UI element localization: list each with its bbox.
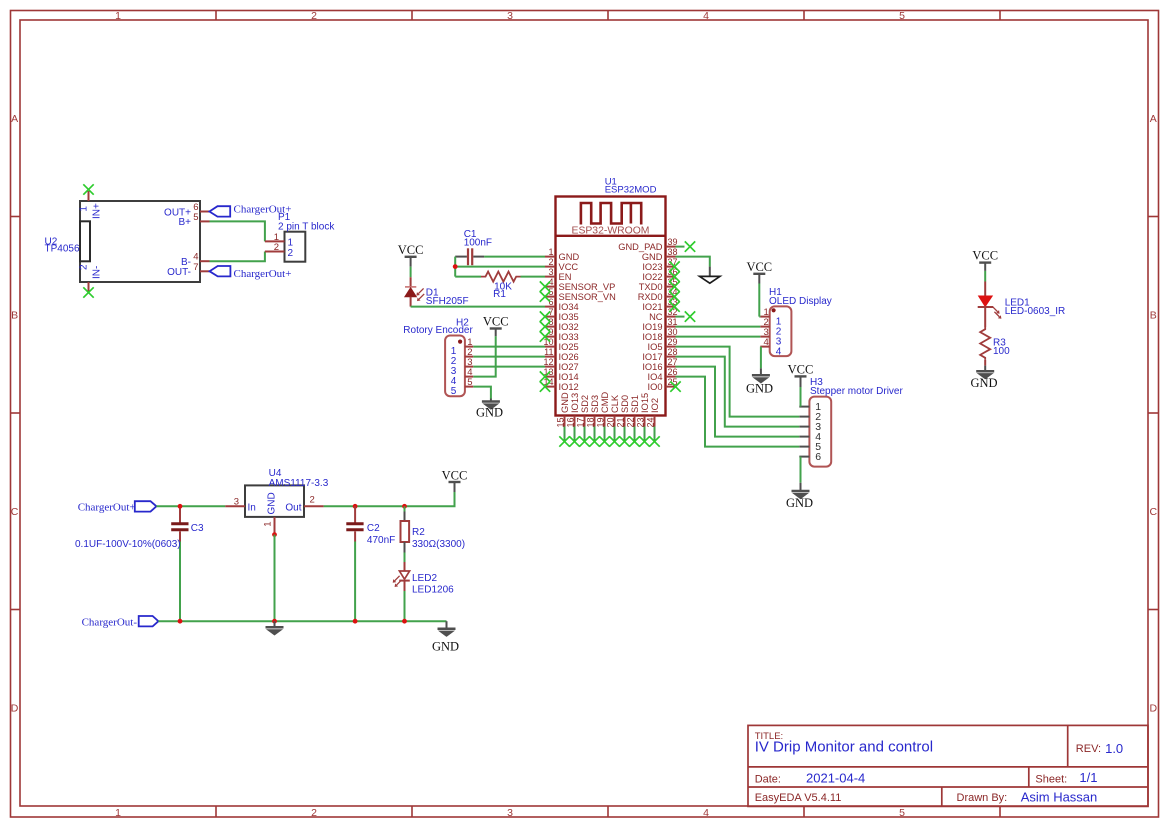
P1 pin 2 — [265, 251, 285, 253]
svg-text:C3: C3 — [191, 523, 204, 534]
U2 pin 4 B- — [200, 260, 210, 262]
svg-text:GND: GND — [267, 492, 278, 514]
D1 light arrows — [418, 288, 423, 293]
wire U1 pin29 IO5 to H3 pin2 — [676, 347, 800, 417]
net flag ChargerOut+ (at U2 OUT+) — [209, 206, 230, 216]
svg-text:IO14: IO14 — [559, 372, 579, 382]
H1 pin 1 — [760, 316, 769, 318]
wire stub bottom pin — [654, 427, 656, 442]
wire U1 pin31 IO19 to H1 pin2 — [676, 326, 761, 328]
U1 pin 6 IO34 — [545, 306, 556, 308]
U2 pin 5 B+ — [200, 220, 210, 222]
svg-text:18: 18 — [586, 418, 596, 428]
wire R1 to U1 pin3 EN — [521, 276, 546, 278]
svg-text:2: 2 — [288, 248, 294, 259]
svg-text:GND_PAD: GND_PAD — [618, 242, 663, 252]
ground symbol (rail end) — [438, 629, 456, 637]
wire ChargerOut+ to U4 In — [156, 505, 225, 507]
svg-text:GND: GND — [786, 496, 813, 510]
connector H3 body — [809, 397, 831, 467]
svg-text:17: 17 — [576, 418, 586, 428]
svg-text:Date:: Date: — [755, 773, 781, 785]
svg-text:SD1: SD1 — [630, 395, 640, 413]
svg-text:SD2: SD2 — [580, 395, 590, 413]
svg-text:1: 1 — [115, 807, 121, 819]
U1 pin 14 IO12 — [545, 386, 556, 388]
IC U4 AMS1117-3.3 body — [245, 485, 304, 517]
svg-text:2: 2 — [274, 242, 279, 253]
junction node R2 top — [402, 504, 407, 509]
junction node at C1/R1 tee — [453, 264, 458, 269]
svg-text:VCC: VCC — [972, 249, 998, 263]
svg-text:22: 22 — [626, 418, 636, 428]
junction node U4 gnd pin — [272, 532, 277, 537]
svg-text:GND: GND — [970, 376, 997, 390]
junction node rail/C2 — [353, 619, 358, 624]
IC U2 TP4056 body — [80, 201, 200, 282]
wire rail end to GND — [446, 621, 448, 629]
U1 pin 5 SENSOR_VN — [545, 296, 556, 298]
svg-text:470nF: 470nF — [367, 535, 395, 546]
svg-text:11: 11 — [544, 347, 553, 357]
svg-text:ESP32-WROOM: ESP32-WROOM — [572, 226, 650, 237]
svg-text:SD0: SD0 — [620, 395, 630, 413]
no-connect X bottom pin — [599, 436, 609, 446]
svg-text:CLK: CLK — [610, 394, 620, 413]
no-connect X on U2 pin2 — [83, 287, 93, 297]
U1 pin 9 IO33 — [545, 336, 556, 338]
U1 pin 25 IO0 — [666, 386, 676, 388]
svg-text:D: D — [1150, 703, 1158, 715]
H2 pin 2 — [465, 356, 473, 358]
svg-text:IN-: IN- — [92, 266, 103, 279]
H3 pin 5 — [799, 446, 809, 448]
svg-text:2 pin T block: 2 pin T block — [278, 221, 335, 232]
U1 pin 24 IO2 — [654, 416, 656, 427]
svg-text:0.1UF-100V-10%(0603): 0.1UF-100V-10%(0603) — [75, 539, 181, 550]
U1 pin 33 IO21 — [666, 306, 676, 308]
wire stub bottom pin — [644, 427, 646, 442]
svg-text:4: 4 — [764, 337, 769, 348]
wire VCC to H1 pin1 — [758, 284, 760, 317]
U2 pin 1 IN+ — [88, 191, 90, 201]
svg-text:6: 6 — [815, 451, 821, 463]
svg-text:AMS1117-3.3: AMS1117-3.3 — [269, 478, 329, 489]
resistor R1 zigzag — [481, 272, 521, 282]
capacitor C3 — [179, 509, 181, 523]
U1 pin 38 GND — [666, 256, 676, 258]
svg-text:IO22: IO22 — [642, 272, 662, 282]
svg-text:IO18: IO18 — [642, 332, 662, 342]
wire U1 pin26 IO4 to H3 pin5 — [676, 377, 800, 447]
svg-text:B+: B+ — [178, 217, 191, 228]
svg-text:IO2: IO2 — [650, 398, 660, 413]
svg-text:IO35: IO35 — [559, 312, 579, 322]
svg-text:GND: GND — [559, 252, 580, 262]
svg-text:SFH205F: SFH205F — [426, 296, 469, 307]
svg-text:C: C — [1150, 506, 1158, 518]
U1 pin 16 IO13 — [574, 416, 576, 427]
U1 pin 19 CMD — [604, 416, 606, 427]
svg-text:Asim Hassan: Asim Hassan — [1021, 790, 1098, 805]
svg-text:OLED Display: OLED Display — [769, 296, 832, 307]
net flag ChargerOut+ (at U2 OUT-) — [210, 266, 231, 276]
U1 pin 31 IO19 — [666, 326, 676, 328]
U1 pin 3 EN — [545, 276, 556, 278]
no-connect X U1 pin39 — [685, 241, 695, 251]
svg-text:24: 24 — [646, 418, 656, 428]
U1 pin 21 SD0 — [624, 416, 626, 427]
svg-text:B: B — [11, 310, 18, 322]
wire to R1 — [455, 276, 481, 278]
svg-text:Stepper motor Driver: Stepper motor Driver — [810, 386, 903, 397]
U1 pin 18 SD3 — [594, 416, 596, 427]
svg-text:LED1206: LED1206 — [412, 585, 454, 596]
U1 antenna meander — [581, 203, 641, 225]
no-connect X marks U1 left pins — [540, 281, 550, 291]
U1 pin 30 IO18 — [666, 336, 676, 338]
no-connect X U1 pin32 — [685, 311, 695, 321]
junction node C3 top — [178, 504, 183, 509]
svg-text:5: 5 — [451, 386, 457, 397]
P1 pin 1 — [265, 240, 285, 242]
wire U1 pin38 GND to earth — [676, 257, 710, 267]
svg-text:REV:: REV: — [1076, 743, 1101, 755]
U1 pin 36 IO22 — [666, 276, 676, 278]
svg-text:IO27: IO27 — [559, 362, 579, 372]
U1 pin 13 IO14 — [545, 376, 556, 378]
U1 pin 8 IO32 — [545, 326, 556, 328]
svg-text:3: 3 — [548, 267, 553, 277]
svg-text:GND: GND — [746, 382, 773, 396]
svg-text:1: 1 — [288, 237, 294, 248]
svg-text:1/1: 1/1 — [1079, 770, 1097, 785]
U4 pin 1 GND — [274, 517, 276, 535]
svg-text:IN+: IN+ — [92, 203, 103, 219]
svg-text:VCC: VCC — [483, 315, 509, 329]
svg-text:IO5: IO5 — [648, 342, 663, 352]
svg-text:5: 5 — [899, 10, 905, 22]
svg-text:A: A — [1150, 113, 1157, 125]
svg-text:TXD0: TXD0 — [639, 282, 663, 292]
svg-text:100: 100 — [993, 346, 1010, 357]
svg-text:1.0: 1.0 — [1105, 741, 1123, 756]
svg-text:GND: GND — [476, 405, 503, 419]
H3 pin 3 — [799, 426, 809, 428]
U1 pin 20 CLK — [614, 416, 616, 427]
ground symbol (H3) — [792, 491, 810, 499]
wire stub bottom pin — [634, 427, 636, 442]
wire U1 pin28 IO17 to H3 pin3 — [676, 357, 800, 427]
U2 pin 7 OUT- — [200, 270, 210, 272]
svg-text:Rotory Encoder: Rotory Encoder — [403, 325, 473, 336]
wire H2 pin4 to VCC — [473, 336, 495, 376]
H2 pin1 indicator dot — [458, 340, 462, 344]
svg-text:Sheet:: Sheet: — [1035, 773, 1067, 785]
title block frame — [748, 725, 1148, 806]
wire U2 B- to P1 pin2 — [210, 252, 265, 262]
U1 pin 37 IO23 — [666, 266, 676, 268]
svg-text:2: 2 — [310, 494, 315, 505]
svg-text:VCC: VCC — [398, 243, 424, 257]
no-connect X U1 pins 37-33 — [669, 261, 679, 271]
svg-text:D: D — [11, 703, 19, 715]
wire H2 pin1 to U1 IO25 — [473, 346, 545, 348]
svg-text:3: 3 — [234, 496, 239, 507]
connector P1 body — [285, 232, 306, 262]
svg-text:IV Drip Monitor and control: IV Drip Monitor and control — [755, 739, 933, 756]
svg-text:3: 3 — [507, 10, 513, 22]
svg-text:C2: C2 — [367, 523, 380, 534]
svg-text:OUT-: OUT- — [167, 267, 191, 278]
svg-text:GND: GND — [642, 252, 663, 262]
svg-text:ChargerOut-: ChargerOut- — [82, 616, 138, 628]
svg-text:B: B — [1150, 310, 1157, 322]
svg-text:2: 2 — [548, 257, 553, 267]
wire stub bottom pin — [564, 427, 566, 442]
svg-text:5: 5 — [193, 212, 198, 223]
H3 pin 1 — [799, 406, 809, 408]
svg-text:VCC: VCC — [559, 262, 579, 272]
svg-text:IO0: IO0 — [648, 382, 663, 392]
svg-text:2: 2 — [79, 264, 90, 270]
svg-text:VCC: VCC — [788, 362, 814, 376]
svg-text:IO16: IO16 — [642, 362, 662, 372]
svg-text:C: C — [11, 506, 19, 518]
svg-text:R2: R2 — [412, 527, 425, 538]
svg-text:EasyEDA V5.4.11: EasyEDA V5.4.11 — [755, 792, 842, 804]
svg-text:VCC: VCC — [746, 260, 772, 274]
wire VCC to H3 pin1 — [800, 387, 802, 407]
no-connect X bottom pin — [589, 436, 599, 446]
U1 pin 17 SD2 — [584, 416, 586, 427]
svg-text:5: 5 — [467, 377, 472, 388]
connector H2 body — [445, 336, 465, 397]
svg-text:CMD: CMD — [600, 392, 610, 413]
U2 pin 6 OUT+ — [200, 211, 210, 213]
svg-text:23: 23 — [636, 418, 646, 428]
no-connect X bottom pin — [559, 436, 569, 446]
U1 pin 7 IO35 — [545, 316, 556, 318]
svg-text:In: In — [248, 502, 256, 513]
U1 pin 12 IO27 — [545, 366, 556, 368]
wire U1 pin2 VCC row — [455, 266, 545, 268]
svg-text:330Ω(3300): 330Ω(3300) — [412, 539, 465, 550]
U1 pin 23 IO15 — [644, 416, 646, 427]
svg-text:4: 4 — [703, 807, 709, 819]
no-connect X bottom pin — [629, 436, 639, 446]
U1 pin 32 NC — [666, 316, 676, 318]
H2 pin 5 — [465, 386, 473, 388]
svg-text:IO26: IO26 — [559, 352, 579, 362]
U1 pin 39 GND_PAD — [666, 246, 676, 248]
svg-text:IO33: IO33 — [559, 332, 579, 342]
earth ground symbol (pin38) — [700, 276, 720, 283]
wire R3 to GND — [984, 360, 986, 366]
svg-text:Drawn By:: Drawn By: — [957, 792, 1008, 804]
wire H3 pin6 to GND — [800, 457, 802, 483]
svg-text:IO13: IO13 — [570, 393, 580, 413]
wire U4 GND down to rail — [274, 535, 276, 622]
U1 pin 34 RXD0 — [666, 296, 676, 298]
svg-text:SENSOR_VN: SENSOR_VN — [559, 292, 616, 302]
wire U1 pin39 GND_PAD stub — [676, 246, 685, 248]
wire U2 B+ to P1 pin1 — [210, 221, 265, 241]
svg-text:IO21: IO21 — [642, 302, 662, 312]
junction node rail/C3 — [178, 619, 183, 624]
no-connect X bottom pin — [569, 436, 579, 446]
svg-text:NC: NC — [649, 312, 663, 322]
H2 pin 1 — [465, 346, 473, 348]
svg-text:IO4: IO4 — [648, 372, 663, 382]
capacitor C1 plates — [467, 248, 469, 265]
wire VCC to D1 — [410, 267, 412, 278]
svg-text:16: 16 — [566, 418, 576, 428]
H2 pin 3 — [465, 366, 473, 368]
svg-text:20: 20 — [606, 418, 616, 428]
ground symbol (H2) — [482, 402, 500, 410]
H1 pin1 indicator dot — [772, 308, 776, 312]
wire VCC to LED1 — [984, 271, 986, 282]
svg-text:SENSOR_VP: SENSOR_VP — [559, 282, 616, 292]
U1 pin 11 IO26 — [545, 356, 556, 358]
IC U1 ESP32MOD body — [556, 197, 666, 416]
junction node rail/U4gnd — [272, 619, 277, 624]
LED2 light arrows — [395, 576, 400, 581]
svg-text:ESP32MOD: ESP32MOD — [605, 185, 657, 196]
resistor R2 (box style) — [404, 506, 406, 511]
U4 pin 3 In — [225, 505, 245, 507]
ground symbol (U4 rail) — [274, 621, 276, 627]
svg-text:3: 3 — [507, 807, 513, 819]
U1 pin 26 IO4 — [666, 376, 676, 378]
junction node C2 top — [353, 504, 358, 509]
wire stub bottom pin — [574, 427, 576, 442]
no-connect X U1 pin25 — [670, 381, 680, 391]
svg-text:1: 1 — [548, 247, 553, 257]
wire stub bottom pin — [614, 427, 616, 442]
svg-text:6: 6 — [548, 297, 553, 307]
wire stub bottom pin — [594, 427, 596, 442]
wire stub bottom pin — [584, 427, 586, 442]
U1 pin 1 GND — [545, 256, 556, 258]
LED LED2 LED1206 — [404, 562, 406, 571]
no-connect X bottom pin — [649, 436, 659, 446]
U1 pin 29 IO5 — [666, 346, 676, 348]
svg-text:IO17: IO17 — [642, 352, 662, 362]
U1 pin 15 GND — [564, 416, 566, 427]
U1 antenna/ESP32-WROOM divider line — [556, 235, 666, 237]
no-connect X on U2 pin1 — [83, 184, 93, 194]
H1 pin 4 — [760, 346, 769, 348]
svg-text:R1: R1 — [493, 289, 506, 300]
svg-text:TP4056: TP4056 — [45, 244, 80, 255]
svg-text:RXD0: RXD0 — [638, 292, 663, 302]
svg-text:5: 5 — [899, 807, 905, 819]
no-connect X bottom pin — [639, 436, 649, 446]
svg-text:2: 2 — [311, 10, 317, 22]
svg-text:A: A — [11, 113, 18, 125]
diode D1 SFH205F — [410, 277, 412, 287]
svg-text:LED2: LED2 — [412, 573, 437, 584]
svg-text:LED-0603_IR: LED-0603_IR — [1005, 306, 1066, 317]
svg-text:4: 4 — [703, 10, 709, 22]
U1 pin 4 SENSOR_VP — [545, 286, 556, 288]
svg-text:4: 4 — [776, 347, 782, 358]
junction node rail/LED2 — [402, 619, 407, 624]
ground symbol (R3) — [976, 371, 994, 379]
wire U4 Out rail to VCC — [324, 492, 455, 506]
svg-text:21: 21 — [616, 418, 626, 428]
svg-text:IO34: IO34 — [559, 302, 579, 312]
H1 pin 3 — [760, 336, 769, 338]
wire stub bottom pin — [624, 427, 626, 442]
svg-text:IO25: IO25 — [559, 342, 579, 352]
svg-text:1: 1 — [79, 206, 90, 212]
wire D1 to U1 pin6 IO34 — [411, 306, 545, 308]
no-connect X bottom pin — [609, 436, 619, 446]
LED1 light arrows — [993, 307, 998, 312]
svg-text:IO32: IO32 — [559, 322, 579, 332]
svg-text:15: 15 — [556, 418, 566, 428]
H3 pin 2 — [799, 416, 809, 418]
C1 leads — [455, 256, 467, 258]
wire ground rail — [158, 620, 446, 622]
svg-text:VCC: VCC — [442, 468, 468, 482]
no-connect X bottom pin — [619, 436, 629, 446]
U1 pin 2 VCC — [545, 266, 556, 268]
U1 pin 28 IO17 — [666, 356, 676, 358]
svg-text:7: 7 — [193, 262, 198, 273]
svg-text:ChargerOut+: ChargerOut+ — [78, 501, 136, 513]
U1 pin 27 IO16 — [666, 366, 676, 368]
U2 pin 2 IN- — [88, 282, 90, 292]
H3 pin 4 — [799, 436, 809, 438]
svg-text:GND: GND — [432, 640, 459, 654]
wire H1 pin4 to GND — [760, 347, 762, 369]
connector H1 body — [770, 306, 792, 356]
U1 pin 10 IO25 — [545, 346, 556, 348]
H3 pin 6 — [799, 456, 809, 458]
svg-text:EN: EN — [559, 272, 572, 282]
H2 pin 4 — [465, 376, 473, 378]
no-connect X bottom pin — [579, 436, 589, 446]
resistor R3 zigzag — [980, 327, 990, 360]
svg-text:ChargerOut+: ChargerOut+ — [234, 268, 292, 280]
U2 left notch rectangle — [80, 221, 90, 261]
svg-text:2: 2 — [311, 807, 317, 819]
wire H2 pin2 to U1 IO26 — [473, 356, 545, 358]
U1 pin 35 TXD0 — [666, 286, 676, 288]
svg-text:IO15: IO15 — [640, 393, 650, 413]
svg-text:IO19: IO19 — [642, 322, 662, 332]
wire H2 pin3 to U1 IO27 — [473, 366, 545, 368]
wire VCC/EN vertical with junction — [454, 257, 456, 277]
svg-text:SD3: SD3 — [590, 395, 600, 413]
wire U1 pin1 GND row — [484, 256, 545, 258]
capacitor C2 — [354, 506, 356, 522]
svg-text:IO23: IO23 — [642, 262, 662, 272]
svg-text:100nF: 100nF — [464, 238, 492, 249]
wire U1 pin30 IO18 to H1 pin3 — [676, 336, 761, 338]
wire H2 pin5 to GND — [473, 387, 491, 399]
svg-text:IO12: IO12 — [559, 382, 579, 392]
LED LED1 LED-0603_IR — [984, 282, 986, 297]
U1 pin 22 SD1 — [634, 416, 636, 427]
svg-text:1: 1 — [115, 10, 121, 22]
svg-text:1: 1 — [263, 522, 274, 527]
U4 pin 2 Out — [304, 505, 324, 507]
